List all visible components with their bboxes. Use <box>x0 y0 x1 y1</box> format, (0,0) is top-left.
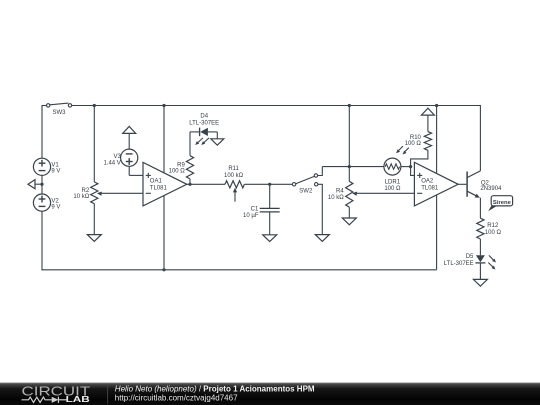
svg-text:OA1: OA1 <box>150 179 163 185</box>
svg-text:TL081: TL081 <box>421 186 439 192</box>
svg-text:http://circuitlab.com/cztvajg4: http://circuitlab.com/cztvajg4d7467 <box>115 393 238 402</box>
svg-text:C1: C1 <box>251 206 259 212</box>
svg-text:V2: V2 <box>51 198 59 204</box>
svg-text:100 Ω: 100 Ω <box>169 169 186 175</box>
svg-text:2N3904: 2N3904 <box>480 186 502 192</box>
svg-text:R4: R4 <box>336 189 344 195</box>
svg-text:Sirene: Sirene <box>493 200 512 206</box>
svg-text:1.44 V: 1.44 V <box>103 161 120 167</box>
svg-text:OA2: OA2 <box>421 179 434 185</box>
svg-text:LTL-307EE: LTL-307EE <box>189 120 219 126</box>
svg-text:D5: D5 <box>466 254 474 260</box>
svg-text:10 kΩ: 10 kΩ <box>73 194 89 200</box>
svg-text:9 V: 9 V <box>51 205 60 211</box>
svg-text:R12: R12 <box>487 223 499 229</box>
svg-text:100 Ω: 100 Ω <box>384 186 401 192</box>
svg-text:10 µF: 10 µF <box>243 213 259 219</box>
svg-text:100 Ω: 100 Ω <box>485 230 502 236</box>
svg-text:SW3: SW3 <box>52 110 66 116</box>
svg-text:D4: D4 <box>200 114 208 120</box>
svg-text:SW2: SW2 <box>299 188 313 194</box>
svg-text:LTL-307EE: LTL-307EE <box>444 261 474 267</box>
svg-text:9 V: 9 V <box>51 169 60 175</box>
svg-text:V1: V1 <box>51 163 59 169</box>
svg-text:R9: R9 <box>177 162 185 168</box>
svg-text:100 Ω: 100 Ω <box>405 141 422 147</box>
svg-text:R2: R2 <box>82 188 90 194</box>
svg-text:LAB: LAB <box>66 394 90 404</box>
svg-text:10 kΩ: 10 kΩ <box>328 195 344 201</box>
svg-text:Helio Neto (heliopneto) / Proj: Helio Neto (heliopneto) / Projeto 1 Acio… <box>115 384 315 393</box>
svg-text:TL081: TL081 <box>150 186 168 192</box>
svg-text:100 kΩ: 100 kΩ <box>224 173 244 179</box>
svg-text:R10: R10 <box>410 135 422 141</box>
svg-text:LDR1: LDR1 <box>385 180 401 186</box>
svg-text:R11: R11 <box>228 166 239 172</box>
svg-text:V3: V3 <box>113 154 121 160</box>
